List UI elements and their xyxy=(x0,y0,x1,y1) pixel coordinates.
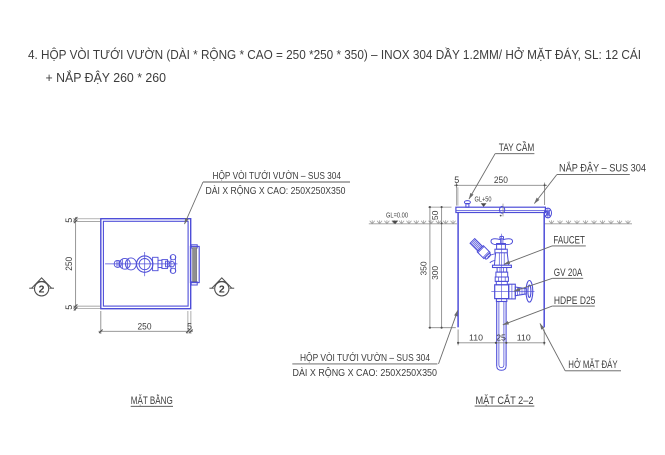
svg-text:5: 5 xyxy=(454,175,459,185)
section top dimension 250 xyxy=(454,183,547,206)
svg-text:110: 110 xyxy=(517,333,531,343)
faucet spout curve xyxy=(488,254,496,263)
ground line right xyxy=(545,223,632,225)
section bottom dimension 110/25/110 xyxy=(458,330,544,346)
faucet plan centerline xyxy=(105,263,177,265)
section box left wall xyxy=(457,213,459,328)
gate valve GV20A xyxy=(491,281,534,303)
faucet plan spout tip xyxy=(114,260,121,267)
plan box inner wall xyxy=(103,221,188,306)
faucet hose nozzle (angled, hatched) xyxy=(469,238,492,261)
plan door handle (right side) xyxy=(190,245,199,285)
svg-text:250: 250 xyxy=(494,175,508,185)
lid handle knob (tay cam) xyxy=(464,201,470,208)
faucet T-handle xyxy=(494,243,510,245)
svg-text:DÀI X RỘNG X CAO: 250X250X350: DÀI X RỘNG X CAO: 250X250X350 xyxy=(293,366,438,379)
svg-text:HỞ MẶT ĐÁY: HỞ MẶT ĐÁY xyxy=(568,358,617,371)
faucet plan valve wheel circles xyxy=(137,256,153,272)
svg-text:300: 300 xyxy=(430,266,440,280)
svg-text:4. HỘP VÒI TƯỚI VƯỜN (DÀI * RỘ: 4. HỘP VÒI TƯỚI VƯỜN (DÀI * RỘNG * CAO =… xyxy=(28,47,641,62)
faucet vertical centerline xyxy=(501,234,503,302)
ground line left xyxy=(369,223,457,225)
faucet plan symbol xyxy=(105,252,177,276)
valve horizontal centerline xyxy=(491,290,534,292)
section box right wall xyxy=(543,213,545,328)
svg-text:2: 2 xyxy=(39,284,45,296)
plan left dimension line xyxy=(73,217,100,311)
svg-text:2: 2 xyxy=(219,284,225,296)
faucet plan handle cross xyxy=(170,255,176,260)
svg-text:HỘP VÒI TƯỚI VƯỜN – SUS 304: HỘP VÒI TƯỚI VƯỜN – SUS 304 xyxy=(300,351,430,364)
svg-text:NẮP ĐẬY – SUS 304: NẮP ĐẬY – SUS 304 xyxy=(559,162,646,175)
faucet plan valve body rect xyxy=(153,257,158,270)
grass hatch marks xyxy=(370,220,631,223)
svg-text:MẶT CẮT 2–2: MẶT CẮT 2–2 xyxy=(476,394,534,407)
svg-text:5: 5 xyxy=(187,321,192,331)
svg-text:GV 20A: GV 20A xyxy=(554,267,583,279)
svg-text:25: 25 xyxy=(496,333,506,343)
plan callout label xyxy=(185,169,351,224)
svg-text:DÀI X RỘNG X CAO: 250X250X350: DÀI X RỘNG X CAO: 250X250X350 xyxy=(206,184,346,197)
section marker 2 right xyxy=(209,278,234,296)
plan callout leader xyxy=(185,182,204,224)
svg-text:TAY CẦM: TAY CẦM xyxy=(499,141,535,154)
section left dimension lines 350/300/50 xyxy=(428,207,456,328)
svg-text:250: 250 xyxy=(64,257,74,271)
svg-text:GL=0.00: GL=0.00 xyxy=(386,213,408,220)
lid hinge knob right xyxy=(544,208,551,218)
bottom-left callout leader xyxy=(439,310,458,364)
svg-text:HỘP VÒI TƯỚI VƯỜN – SUS 304: HỘP VÒI TƯỚI VƯỜN – SUS 304 xyxy=(213,169,342,182)
faucet assembly (section) xyxy=(469,234,512,302)
lid center lift ellipse xyxy=(500,206,505,213)
svg-text:GL+50: GL+50 xyxy=(475,197,492,204)
plan box outer wall xyxy=(101,219,191,309)
svg-text:250: 250 xyxy=(138,321,152,331)
svg-text:HDPE D25: HDPE D25 xyxy=(554,295,596,307)
faucet plan coupling circle xyxy=(119,258,130,269)
svg-text:110: 110 xyxy=(469,333,483,343)
HDPE pipe xyxy=(497,302,506,371)
faucet flange xyxy=(493,265,512,267)
faucet body xyxy=(494,253,508,265)
svg-text:+ NẮP ĐẬY 260 * 260: + NẮP ĐẬY 260 * 260 xyxy=(46,70,167,85)
plan bottom dimension line xyxy=(99,311,194,334)
svg-text:5: 5 xyxy=(64,305,74,310)
section marker 2 left xyxy=(29,278,54,296)
svg-text:MẶT BẰNG: MẶT BẰNG xyxy=(131,394,173,407)
svg-text:50: 50 xyxy=(430,210,440,220)
svg-text:FAUCET: FAUCET xyxy=(553,235,585,247)
faucet plan body ellipse xyxy=(125,258,136,270)
section bottom-left callout xyxy=(292,310,458,379)
lid xyxy=(456,207,546,212)
faucet stem xyxy=(497,244,506,250)
faucet coupling nuts xyxy=(497,268,507,273)
svg-text:5: 5 xyxy=(64,218,74,223)
faucet plan nipple xyxy=(158,260,162,267)
svg-text:350: 350 xyxy=(418,261,428,275)
